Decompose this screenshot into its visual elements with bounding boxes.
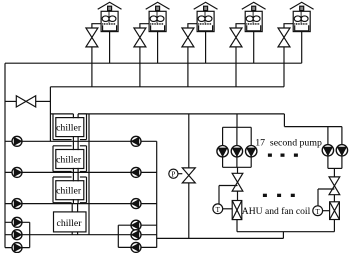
wire: tower 3 outlet pipe bbox=[205, 32, 207, 64]
wire: tower 4 valve to supply header bbox=[235, 47, 237, 87]
wire: tower 2 valve to supply header bbox=[139, 47, 141, 87]
wire: tower 5 outlet pipe bbox=[301, 32, 303, 64]
wire: vertical at right of chillers bbox=[88, 114, 90, 235]
wire: left cluster manifold bbox=[29, 222, 31, 247]
wire: condenser water header from towers (top header) bbox=[5, 62, 302, 64]
wire: chiller 3 top stubs bbox=[73, 172, 78, 181]
wire: valve 1 body connections bbox=[236, 191, 239, 232]
svg-text:AHU and fan coil: AHU and fan coil bbox=[242, 206, 311, 217]
wire: tower 5 inlet branch bbox=[284, 24, 293, 28]
wire: secondary group 2 discharge header bbox=[328, 167, 342, 169]
chiller 2 body bbox=[56, 150, 84, 169]
wire: chiller 1 top stubs bbox=[73, 114, 78, 118]
pump: secondary pump 17 bbox=[336, 145, 347, 156]
wire: tower 2 outlet pipe bbox=[157, 32, 159, 64]
wire: left cluster bottom branch bbox=[5, 247, 30, 249]
valve: tower 4 butterfly valve bbox=[230, 28, 242, 47]
pump: secondary pump 16 bbox=[322, 145, 333, 156]
pump: primary chilled pump 1 bbox=[131, 136, 141, 146]
pump: primary chilled pump 2 bbox=[131, 167, 141, 177]
node: continuation dots lower bbox=[263, 194, 294, 196]
svg-text:chiller: chiller bbox=[56, 218, 82, 229]
pump: chilled pump cluster 2 bbox=[131, 230, 141, 240]
pump: chilled pump cluster 1 bbox=[131, 220, 141, 230]
cooling tower CT2 bbox=[146, 2, 170, 31]
valve: tower 2 butterfly valve bbox=[134, 28, 146, 47]
wire: valve 1 waist link to T sensor bbox=[219, 186, 238, 204]
node: continuation dots upper bbox=[268, 154, 297, 156]
wire: group 1 header to valve bbox=[237, 167, 239, 173]
wire: chilled water supply header (long mid header) bbox=[78, 113, 284, 115]
wire: tower 1 inlet branch bbox=[92, 24, 101, 28]
wire: tower 2 inlet branch bbox=[140, 24, 149, 28]
svg-text:chiller: chiller bbox=[56, 122, 82, 133]
wire: chilled water return header bbox=[157, 232, 284, 239]
wire: tower 1 valve to supply header bbox=[91, 47, 93, 87]
cooling tower CT1 bbox=[98, 2, 122, 31]
wire: condenser supply header to tower valves bbox=[50, 86, 284, 88]
wire: chiller 4 top stubs bbox=[72, 204, 77, 212]
wire: bypass down to return header bbox=[188, 183, 190, 239]
svg-text:chiller: chiller bbox=[56, 154, 82, 165]
chiller 3 outer shell bbox=[53, 177, 87, 203]
wire: secondary group 1 discharge header bbox=[223, 166, 252, 168]
valve: secondary branch valve 2 bbox=[329, 177, 340, 195]
wire: secondary pump 1 stubs bbox=[222, 127, 224, 167]
svg-text:chiller: chiller bbox=[56, 186, 82, 197]
wire: condenser branch to chiller 1 inlet bbox=[50, 113, 73, 115]
wire: secondary pump 2 stubs bbox=[236, 127, 238, 167]
wire: feed to secondary pump group 2 bbox=[284, 114, 342, 127]
valve: bypass pressure valve bbox=[182, 168, 195, 183]
wire: tower 4 inlet branch bbox=[236, 24, 245, 28]
wire: AHU loop bottom line bbox=[237, 231, 334, 233]
wire: horizontal row pipe 3 bbox=[5, 203, 157, 205]
pump: secondary pump 2 bbox=[231, 146, 242, 157]
wire: horizontal row pipe 4 bbox=[5, 234, 157, 236]
wire: branch to main isolation valve bbox=[5, 100, 16, 102]
wire: secondary group 2 pump stubs bbox=[328, 127, 342, 169]
wire: bypass riser from supply header bbox=[188, 114, 190, 168]
pump: secondary pump 3 bbox=[246, 146, 257, 157]
wire: middle cluster top branch bbox=[118, 224, 156, 226]
svg-text:T: T bbox=[216, 206, 221, 214]
wire: tower 4 outlet pipe bbox=[253, 32, 255, 64]
wire: riser from supply header to chiller bank bbox=[49, 87, 51, 142]
svg-text:17 second pump: 17 second pump bbox=[255, 137, 322, 148]
valve: tower 5 butterfly valve bbox=[278, 28, 290, 47]
wire: chiller 2 bottom stubs bbox=[73, 168, 78, 173]
valve: tower 3 butterfly valve bbox=[182, 28, 194, 47]
wire: tower 5 valve to supply header bbox=[283, 47, 285, 87]
wire: valve 2 body connections bbox=[333, 195, 335, 232]
wire: horizontal row pipe 2 bbox=[5, 171, 157, 173]
pump: condenser pump cluster 2 bbox=[12, 230, 22, 240]
wire: tower 3 inlet branch bbox=[188, 24, 197, 28]
wire: group 2 header to valve bbox=[333, 168, 335, 177]
wire: chiller 2 top stubs bbox=[73, 141, 78, 150]
wire: middle cluster manifold bbox=[117, 225, 119, 247]
sensor T: temperature sensor 2 bbox=[313, 206, 330, 216]
wire: valve 2 waist link to T sensor bbox=[318, 189, 334, 206]
pump: condenser pump 1 bbox=[12, 136, 22, 146]
wire: secondary group 1 suction header bbox=[223, 126, 252, 128]
wire: left cluster top branch bbox=[5, 221, 30, 223]
cooling tower CT4 bbox=[242, 2, 266, 31]
wire: horizontal row pipe 1 bbox=[5, 140, 157, 142]
sensor P: differential pressure sensor bbox=[169, 169, 183, 179]
pump: condenser pump cluster 1 bbox=[12, 217, 22, 227]
wire: tower 1 outlet pipe bbox=[109, 32, 111, 64]
wire: tower 3 valve to supply header bbox=[187, 47, 189, 87]
cooling tower CT5 bbox=[290, 2, 314, 31]
pump: chilled pump cluster 3 bbox=[131, 242, 141, 252]
pump: condenser pump cluster 3 bbox=[12, 243, 22, 253]
chiller 1 outer shell bbox=[53, 114, 87, 140]
valve: secondary branch valve 1 bbox=[232, 173, 243, 191]
wire: left main riser bbox=[4, 63, 6, 247]
valve: main condenser isolation valve bbox=[16, 96, 26, 107]
wire: middle cluster bottom branch bbox=[118, 246, 156, 248]
sensor T: temperature sensor 1 bbox=[213, 204, 232, 214]
valve: AHU control valve 1 bbox=[232, 201, 242, 220]
pump: condenser pump 2 bbox=[12, 167, 22, 177]
svg-text:T: T bbox=[316, 208, 321, 216]
wire: secondary pump 3 stubs bbox=[250, 127, 252, 167]
wire: valve to riser bbox=[36, 100, 51, 102]
chiller 3 body bbox=[56, 181, 84, 200]
wire: chiller 4 bottom stubs bbox=[72, 232, 77, 235]
svg-text:P: P bbox=[171, 171, 175, 179]
chiller 4 body bbox=[54, 212, 87, 232]
pump: secondary pump 1 bbox=[217, 146, 228, 157]
valve: AHU control valve 2 bbox=[330, 202, 340, 220]
pump: primary chilled pump 3 bbox=[131, 199, 141, 209]
chiller 1 body bbox=[56, 118, 84, 137]
chiller 2 outer shell bbox=[53, 146, 87, 172]
wire: chiller 3 bottom stubs bbox=[73, 199, 78, 204]
pump: condenser pump 3 bbox=[12, 199, 22, 209]
wire: chiller 1 bottom stubs bbox=[73, 136, 78, 141]
wire: feed to secondary pump group 1 bbox=[236, 114, 238, 127]
valve: tower 1 butterfly valve bbox=[86, 28, 98, 47]
wire: right riser from row 1 down to return header bbox=[156, 141, 158, 247]
cooling tower CT3 bbox=[194, 2, 218, 31]
